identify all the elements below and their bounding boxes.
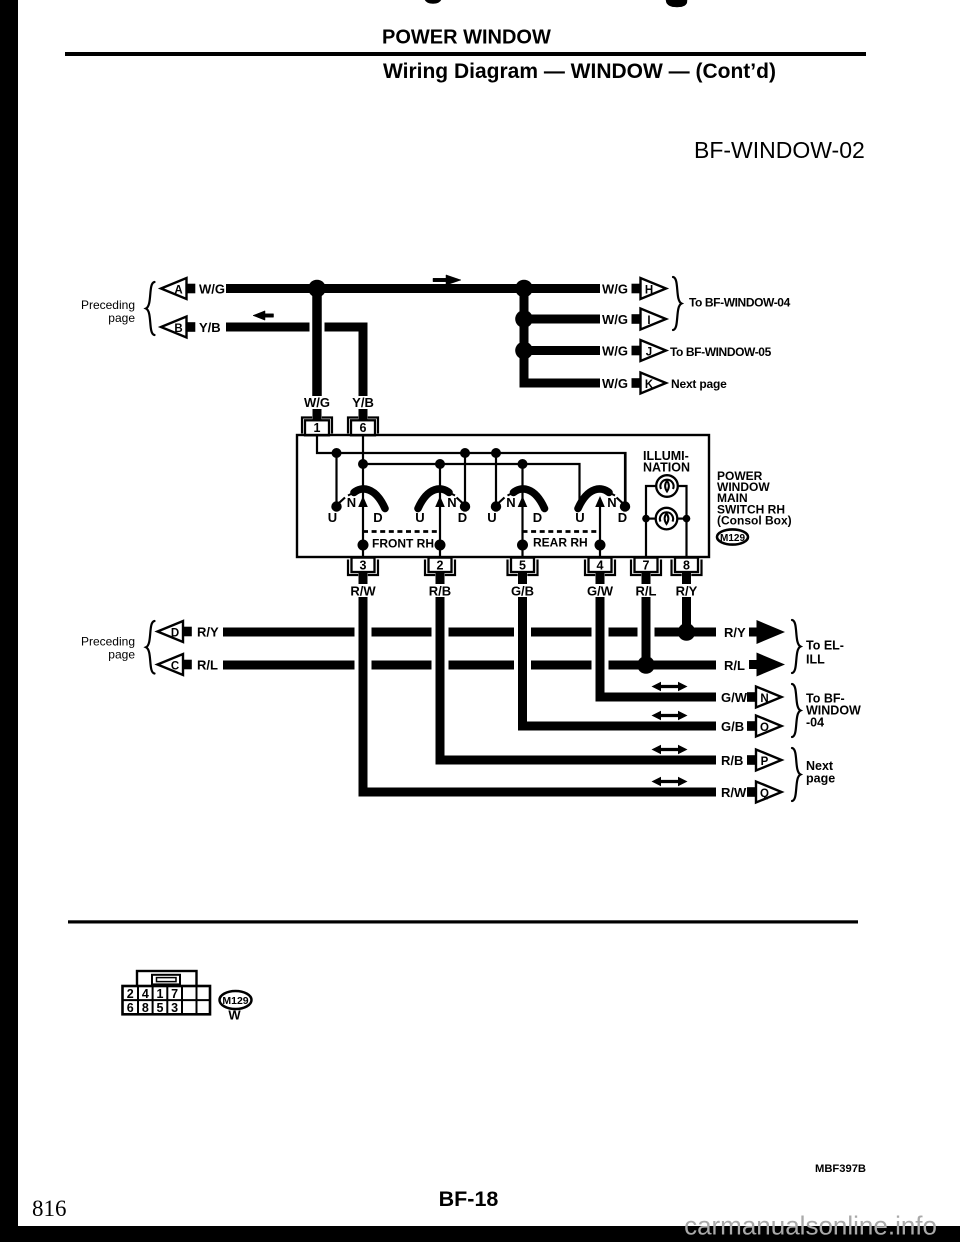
svg-text:A: A [174,284,182,296]
svg-text:2: 2 [437,559,444,573]
svg-text:J: J [646,346,652,358]
svg-text:816: 816 [32,1196,67,1221]
wire R/W (pin 3) [363,597,716,792]
svg-text:C: C [171,660,179,672]
brace To BF-WINDOW-04 (bottom) [792,684,801,737]
svg-text:5: 5 [157,1001,164,1015]
svg-text:carmanualsonline.info: carmanualsonline.info [684,1211,937,1241]
svg-text:K: K [645,379,654,391]
junction dot J [515,342,533,360]
svg-text:5: 5 [519,559,526,573]
svg-text:1: 1 [157,987,164,1001]
flow arrow left [253,311,274,320]
switch common line FRONT RH right [439,464,441,557]
wire W/G from A [226,284,600,293]
svg-text:POWER WINDOW: POWER WINDOW [382,27,551,49]
svg-text:R/Y: R/Y [197,625,219,640]
svg-text:G/B: G/B [511,584,534,599]
svg-text:Wiring Diagram — WINDOW — (Con: Wiring Diagram — WINDOW — (Cont’d) [383,60,776,83]
svg-text:R/B: R/B [721,753,743,768]
wire stub to pin 6 [359,409,368,420]
svg-text:6: 6 [127,1001,134,1015]
flow arrow to EL-ILL (R/L) [749,660,757,669]
svg-text:To BF-WINDOW-05: To BF-WINDOW-05 [670,345,772,359]
wire R/B (pin 2) [440,597,716,760]
cropped title fragment 2 [666,0,687,7]
svg-text:D: D [618,510,627,525]
svg-text:R/L: R/L [636,584,657,599]
wire stub from pin 8 [682,572,691,584]
svg-text:FRONT RH: FRONT RH [372,537,434,551]
svg-text:8: 8 [683,559,690,573]
junction dot H [515,280,533,298]
svg-text:I: I [647,315,650,327]
wire R/Y (pin 8) [682,597,691,632]
svg-text:U: U [328,510,337,525]
connector id M129 [717,529,748,544]
illumination lamp bulb 1 [656,475,678,497]
switch common line REAR RH right [599,500,601,557]
wire stub to pin 1 [313,409,322,420]
svg-text:3: 3 [171,1001,178,1015]
svg-text:R/L: R/L [724,658,745,673]
svg-text:Next page: Next page [671,377,727,391]
connector id M129 (grid) [220,991,252,1009]
switch contact dot U [491,501,501,511]
svg-text:N: N [607,495,616,510]
svg-text:G/B: G/B [721,719,744,734]
connector pin 5 [508,560,518,576]
wire stub from pin 5 [518,572,527,584]
connector arrow A [161,278,187,299]
switch contact tap (D) [464,453,466,502]
svg-text:4: 4 [142,987,149,1001]
wire stub from pin 3 [359,572,368,584]
svg-text:M129: M129 [222,995,248,1007]
switch actuator arrow [358,496,368,507]
switch arc tail [609,493,615,496]
svg-text:page: page [806,772,835,786]
connector arrow P [747,755,756,765]
svg-text:W: W [228,1008,241,1023]
connector pin 3 [348,560,358,576]
svg-text:BF-WINDOW-02: BF-WINDOW-02 [694,137,865,163]
connector arrow J [632,346,641,356]
connector arrow H [632,284,641,294]
wire R/L (pin 7) [642,597,651,664]
connector arrow B [161,317,187,338]
flow arrow to EL-ILL (R/Y) [749,628,757,637]
svg-text:-04: -04 [806,716,824,730]
svg-text:U: U [575,510,584,525]
brace To EL-ILL [792,620,801,673]
connector pin 4 [585,560,595,576]
wire Y/B elbow to pin 6 [325,327,364,396]
switch lever arc [354,489,385,509]
switch actuator arrow [435,496,445,507]
connector arrow N [747,692,756,702]
connector arrow K [632,378,641,388]
flow arrow double (G/B) [658,714,682,717]
junction dot R/L [637,656,655,674]
svg-text:P: P [761,756,769,768]
switch lever arc [418,489,449,509]
illumination rail dots [642,515,650,523]
switch lever arc [578,489,609,509]
svg-text:7: 7 [171,987,178,1001]
switch contact tap (D) [624,453,626,502]
switch contact dot D [460,501,470,511]
svg-text:Preceding: Preceding [81,635,135,649]
svg-text:R/Y: R/Y [676,584,698,599]
feed wire from pin 1 / bus up [317,436,626,502]
svg-text:R/L: R/L [197,658,218,673]
switch lever arc [514,489,545,509]
svg-text:B: B [174,323,182,335]
svg-text:(Consol Box): (Consol Box) [717,514,792,528]
switch output dot [517,540,528,551]
wire stub J [524,346,600,355]
switch actuator arrow [595,496,605,507]
svg-text:ILL: ILL [806,653,825,667]
connector arrow Q [747,787,756,797]
svg-text:Preceding: Preceding [81,298,135,312]
switch common line REAR RH left [521,464,523,557]
svg-text:Y/B: Y/B [199,320,221,335]
switch output dot [358,540,369,551]
connector arrow C [158,654,184,675]
svg-text:To EL-: To EL- [806,639,844,653]
connector pin 8 [672,560,682,576]
svg-text:1: 1 [314,421,321,435]
wire R/Y horizontal [223,628,355,637]
switch output dot [595,540,606,551]
svg-text:O: O [760,722,769,734]
cropped title fragment 1 [425,0,441,4]
svg-text:H: H [645,284,653,296]
switch contact tick [457,498,463,504]
svg-text:N: N [506,495,515,510]
svg-text:D: D [171,627,179,639]
brace to BF-WINDOW-04 [673,277,682,330]
junction dot I [515,310,533,328]
switch common line FRONT RH left [362,436,364,557]
power window main switch box U1 [297,435,709,557]
dashed link FRONT RH [363,530,437,533]
switch output dot [435,540,446,551]
wire stub from pin 4 [596,572,605,584]
wire stub from pin 7 [642,572,651,584]
flow arrow double (R/B) [658,748,682,751]
svg-text:W/G: W/G [602,312,628,327]
junction node W/G [308,280,326,298]
svg-text:M129: M129 [720,533,745,544]
wire W/G bus vertical with elbow to K [524,289,600,384]
svg-text:page: page [108,311,135,325]
page edge bar left [0,0,18,1242]
wire G/W (pin 4) [600,597,716,697]
svg-text:D: D [533,510,542,525]
svg-text:D: D [373,510,382,525]
switch arc tail [449,493,455,496]
illumination right rail [678,486,687,557]
switch contact tick [499,498,505,504]
wire stub I [524,315,600,324]
switch actuator arrow [518,496,528,507]
flow arrow double (G/W) [658,685,682,688]
svg-text:R/B: R/B [429,584,451,599]
svg-text:W/G: W/G [602,376,628,391]
svg-text:U: U [487,510,496,525]
wire W/G vertical to pin 1 [312,289,322,397]
bus down junction dots [358,459,368,469]
svg-text:REAR RH: REAR RH [533,536,588,550]
svg-text:Y/B: Y/B [352,395,374,410]
switch contact dot D [620,501,630,511]
svg-text:8: 8 [142,1001,149,1015]
wire G/B (pin 5) [523,597,717,726]
bus up junction dots [332,448,342,458]
svg-text:N: N [347,495,356,510]
connector arrow O [747,721,756,731]
svg-text:page: page [108,648,135,662]
svg-text:W/G: W/G [199,282,225,297]
connector M129 pin grid [137,971,197,987]
svg-text:N: N [760,693,768,705]
section divider [68,920,858,923]
connector pin 2 [425,560,435,576]
dashed link REAR RH [523,530,598,533]
brace Next page (bottom) [792,748,801,801]
header rule [65,52,866,56]
switch contact tick [339,498,345,504]
svg-text:R/W: R/W [721,785,747,800]
svg-text:3: 3 [360,559,367,573]
svg-text:N: N [447,495,456,510]
svg-text:G/W: G/W [721,690,748,705]
svg-text:R/W: R/W [350,584,376,599]
illumination lamp bulb 2 [656,508,678,530]
svg-text:4: 4 [597,559,604,573]
wire stub from pin 2 [436,572,445,584]
bottom bar [0,1226,960,1242]
svg-text:BF-18: BF-18 [439,1187,499,1211]
switch contact tap (U) [335,453,337,502]
svg-text:G/W: G/W [587,584,614,599]
junction dot R/Y [678,623,696,641]
switch arc tail [508,493,514,496]
svg-text:Q: Q [760,788,769,800]
svg-text:7: 7 [643,559,650,573]
switch contact tick [617,498,623,504]
svg-text:W/G: W/G [602,344,628,359]
svg-text:D: D [458,510,467,525]
svg-text:To BF-WINDOW-04: To BF-WINDOW-04 [689,296,791,310]
connector pin 7 [631,560,641,576]
connector arrow I [632,314,641,324]
connector pin 6 [348,418,358,434]
svg-text:6: 6 [360,421,367,435]
wire R/L horizontal [223,661,355,670]
connector arrow D [158,621,184,642]
wire Y/B from B [226,323,310,332]
switch contact tap (U) [495,453,497,502]
svg-text:MBF397B: MBF397B [815,1163,866,1175]
svg-text:W/G: W/G [602,282,628,297]
brace preceding page (bottom) [146,621,155,674]
svg-text:2: 2 [127,987,134,1001]
flow arrow double (R/W) [658,780,682,783]
flow arrow right [433,275,461,285]
svg-text:R/Y: R/Y [724,625,746,640]
feed wire from pin 6 / bus down [363,464,580,503]
svg-text:W/G: W/G [304,395,330,410]
switch arc tail [348,493,354,496]
brace preceding page (top) [146,282,155,335]
svg-text:U: U [415,510,424,525]
switch contact dot U [331,501,341,511]
illumination left rail [646,486,656,557]
connector pin 1 [302,418,312,434]
svg-text:NATION: NATION [643,461,690,475]
